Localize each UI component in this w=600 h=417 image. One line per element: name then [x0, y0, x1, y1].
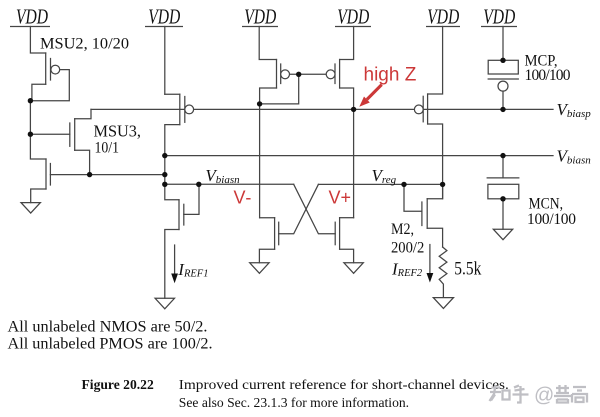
transistor M1 channel (IREF1 NMOS): [178, 200, 180, 230]
PMOS bubble left mirror: [185, 105, 194, 114]
wire MSU1 source to ground: [31, 189, 46, 203]
PMOS bubble mid-right: [326, 70, 335, 79]
transistor V+ NMOS channel: [339, 218, 341, 250]
wire Vreg rail: [318, 183, 442, 185]
transistor left mirror PMOS gate bar: [184, 97, 186, 123]
wire MSU3 drain to Vbiasp rail: [75, 109, 91, 118]
transistor mid-right PMOS channel: [339, 60, 341, 89]
transistor V- NMOS gate bar: [278, 222, 280, 245]
watermark zhihu @shengao: [490, 385, 588, 407]
svg-text:IREF1: IREF1: [177, 260, 208, 280]
capacitor MCP body box: [488, 60, 518, 74]
svg-text:high Z: high Z: [364, 65, 417, 86]
wire Vbiasp rail: [91, 108, 553, 110]
wire M2 gate lead: [404, 184, 422, 211]
wire MSU3 source down: [75, 150, 90, 174]
node M1 gate tap: [196, 182, 201, 187]
transistor mid-left PMOS gate bar: [280, 64, 282, 84]
wire VDD6 riser: [502, 27, 504, 61]
node left branch at Vbiasn gate rail: [162, 182, 167, 187]
wire Vbiasn gate rail segment: [165, 183, 294, 185]
svg-text:Vbiasn: Vbiasn: [205, 166, 240, 186]
svg-text:All unlabeled PMOS are 100/2.: All unlabeled PMOS are 100/2.: [8, 336, 213, 353]
svg-text:Vbiasn: Vbiasn: [557, 147, 592, 167]
svg-text:Figure 20.22: Figure 20.22: [82, 377, 154, 392]
node MCN body bottom: [500, 196, 505, 201]
svg-text:100/100: 100/100: [525, 67, 571, 84]
transistor MSU1 channel: [45, 159, 47, 189]
wire mid-right branch vertical: [340, 88, 354, 218]
wire MCP gate to Vbiasp: [502, 91, 504, 109]
wire V- gate cross-couple diagonal: [279, 184, 319, 233]
ground symbol under MCN: [493, 229, 512, 240]
transistor mid-right PMOS gate bar: [334, 64, 336, 84]
wire V+ gate cross-couple diagonal: [294, 184, 336, 233]
svg-text:VDD: VDD: [427, 5, 459, 29]
svg-text:VDD: VDD: [337, 5, 369, 29]
capacitor MCN body box: [488, 184, 519, 199]
wire left mirror PMOS source stub: [165, 93, 180, 95]
node PMOS pair gate link: [296, 72, 301, 77]
wire VDD4 riser and mid-right PMOS source stub: [340, 27, 354, 60]
wire left mirror PMOS drain and left branch vertical: [165, 125, 180, 200]
wire MCN gate to Vbiasn: [502, 156, 504, 178]
svg-text:VDD: VDD: [244, 5, 276, 29]
wire gate rail of MSU1 to left branch: [50, 174, 164, 176]
wire MSU2 gate to drain (diode connection): [30, 70, 69, 101]
svg-text:10/1: 10/1: [95, 140, 120, 157]
transistor M1 gate bar: [183, 204, 185, 225]
transistor left mirror PMOS channel: [179, 94, 181, 124]
node MCP gate on Vbiasp: [500, 107, 505, 112]
label VDD2: [145, 5, 183, 29]
transistor mid-left PMOS channel: [276, 60, 278, 89]
svg-text:IREF2: IREF2: [391, 260, 423, 280]
wire left startup rail: [30, 101, 46, 159]
svg-text:VDD: VDD: [16, 5, 48, 29]
transistor V- NMOS channel: [274, 218, 276, 250]
svg-text:Vbiasp: Vbiasp: [557, 100, 592, 120]
capacitor MCN gate plate: [487, 177, 519, 179]
transistor MSU2 channel: [45, 53, 47, 84]
wire Vbiasn output rail: [165, 155, 553, 157]
ground symbol under V+ NMOS: [344, 263, 363, 274]
transistor right cascode PMOS gate bar: [422, 96, 424, 122]
wire MSU2 drain lead: [32, 84, 46, 100]
transistor MSU3 channel: [74, 119, 76, 151]
svg-text:All unlabeled NMOS are 50/2.: All unlabeled NMOS are 50/2.: [8, 319, 208, 336]
transistor V+ NMOS gate bar: [334, 222, 336, 245]
transistor MSU3 gate bar: [69, 123, 71, 146]
label VDD4: [335, 5, 371, 29]
svg-text:See also Sec. 23.1.3 for more: See also Sec. 23.1.3 for more informatio…: [179, 395, 409, 410]
wire M2 drain to Vreg: [427, 184, 442, 198]
svg-text:VDD: VDD: [483, 5, 515, 29]
wire MCN body to ground: [502, 199, 504, 229]
ground symbol under V- NMOS: [250, 263, 269, 274]
wire V+ NMOS drain stub: [340, 217, 354, 219]
transistor M2 gate bar: [421, 202, 423, 226]
svg-text:VDD: VDD: [148, 5, 180, 29]
node M2 gate tap on Vreg: [401, 182, 406, 187]
wire VDD5 riser and right PMOS source stub: [428, 27, 443, 95]
transistor M2 channel: [426, 199, 428, 229]
wire V+ NMOS source to ground: [340, 249, 354, 263]
transistor MSU1 gate bar: [49, 164, 51, 186]
high Z annotation arrow: [359, 85, 381, 107]
capacitor MCP gate plate: [488, 78, 518, 80]
PMOS bubble MSU2: [51, 65, 60, 74]
wire right PMOS drain down to M2: [428, 124, 443, 199]
svg-text:MSU2, 10/20: MSU2, 10/20: [40, 34, 129, 53]
wire VDD3 riser and mid-left PMOS source stub: [259, 27, 276, 60]
svg-text:V-: V-: [234, 188, 253, 208]
label VDD6: [481, 5, 517, 29]
ground symbol under resistor: [433, 298, 453, 309]
transistor MSU2 gate bar: [50, 59, 52, 81]
svg-text:MCN,: MCN,: [529, 196, 564, 213]
current arrow IREF1: [174, 244, 176, 274]
wire V- NMOS drain stub: [260, 217, 275, 219]
svg-text:V+: V+: [329, 188, 352, 208]
wire VDD2 riser: [164, 27, 166, 95]
wire V- NMOS source to ground: [259, 249, 274, 263]
current arrow IREF2: [429, 244, 431, 274]
PMOS bubble right cascode: [414, 105, 423, 114]
node MSU2 drain-gate junction: [28, 98, 33, 103]
svg-text:@: @: [534, 385, 554, 407]
svg-text:100/100: 100/100: [527, 211, 576, 228]
svg-text:Vreg: Vreg: [372, 166, 397, 186]
wire PMOS pair gate link: [290, 73, 327, 75]
node mid-left diode junction: [257, 101, 262, 106]
label VDD3: [242, 5, 278, 29]
label VDD5: [426, 5, 460, 29]
wire VDD1 riser and MSU2 source stub: [30, 27, 45, 54]
node MCP top: [500, 58, 505, 63]
wire M1 gate to Vbiasn rail: [184, 184, 199, 214]
node MCN gate on Vbiasn: [500, 153, 505, 158]
node high Z on Vbiasp rail: [351, 107, 356, 112]
node MSU3 gate tap: [28, 132, 33, 137]
wire M1 source to ground: [165, 230, 179, 299]
wire MSU3 gate lead: [30, 133, 69, 135]
node MSU3 source junction: [87, 172, 92, 177]
ground symbol under MSU1: [21, 203, 40, 214]
svg-text:5.5k: 5.5k: [454, 260, 482, 280]
wire gate link down to diode node: [260, 74, 299, 104]
wire mid-left branch vertical: [260, 88, 277, 218]
transistor right cascode PMOS channel: [427, 94, 429, 124]
node Vreg right end: [440, 182, 445, 187]
PMOS bubble MCP: [498, 81, 508, 91]
svg-text:M2,: M2,: [391, 219, 414, 238]
svg-text:200/2: 200/2: [391, 240, 424, 257]
label VDD1: [10, 5, 50, 29]
PMOS bubble mid-left: [281, 70, 290, 79]
wire M2 source to resistor: [427, 228, 442, 247]
svg-text:Improved current reference for: Improved current reference for short-cha…: [179, 377, 509, 392]
node left branch at Vbiasn out: [162, 153, 167, 158]
node left branch at startup rail: [162, 172, 167, 177]
ground symbol under M1: [155, 298, 174, 309]
resistor R1 zigzag: [439, 247, 447, 297]
svg-text:MSU3,: MSU3,: [94, 121, 142, 140]
